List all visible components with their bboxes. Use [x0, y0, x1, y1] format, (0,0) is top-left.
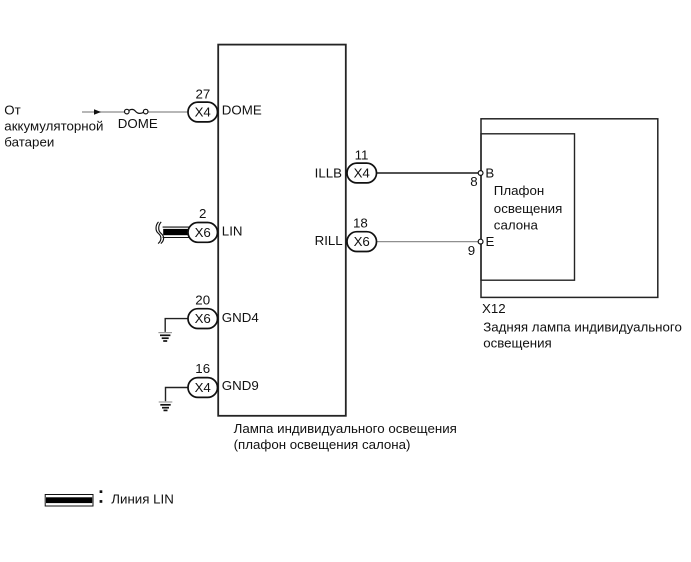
legend LIN line sample: [45, 495, 93, 507]
connector X4 pin 16 GND9: [188, 361, 259, 398]
lamp inner box: [481, 134, 575, 280]
connector X6 pin 18 RILL: [315, 215, 377, 251]
svg-text:GND4: GND4: [222, 310, 259, 325]
node: battery feed label: [4, 102, 103, 149]
LIN shielded bar wavy break: [156, 222, 161, 244]
svg-text:DOME: DOME: [222, 102, 262, 117]
svg-text:X4: X4: [195, 380, 211, 395]
wire fuse to DOME pin: [148, 111, 190, 113]
svg-text:8: 8: [470, 174, 477, 189]
wire RILL to node E: [376, 241, 480, 243]
svg-text:ILLB: ILLB: [315, 165, 342, 180]
svg-text:X4: X4: [195, 104, 211, 119]
svg-text:E: E: [486, 234, 495, 249]
svg-text:От: От: [4, 102, 20, 117]
svg-text:27: 27: [196, 86, 211, 101]
svg-text:DOME: DOME: [118, 116, 158, 131]
label: Плафон освещения салона: [494, 183, 563, 232]
module box: Лампа индивидуального освещения: [218, 45, 346, 416]
wire GND4 to ground: [165, 319, 189, 332]
svg-text:16: 16: [195, 361, 210, 376]
connector X6 pin 2 LIN: [188, 206, 243, 242]
ground GND4: [158, 333, 172, 341]
node B pin 8: [470, 166, 494, 190]
fuse DOME: [118, 109, 158, 131]
wire battery feed: [82, 111, 125, 113]
connector X4 pin 11 ILLB: [315, 147, 377, 183]
svg-text:18: 18: [353, 215, 368, 230]
legend colon: [100, 490, 103, 503]
svg-text:аккумуляторной: аккумуляторной: [4, 118, 103, 133]
svg-text:(плафон освещения салона): (плафон освещения салона): [234, 437, 411, 452]
label: Лампа индивидуального освещения (плафон освещения салона): [234, 421, 457, 452]
svg-text:20: 20: [195, 293, 210, 308]
svg-text:2: 2: [199, 206, 206, 221]
svg-text:LIN: LIN: [222, 224, 243, 239]
LIN bus bar: [163, 227, 192, 237]
wire ILLB to node B: [376, 172, 480, 174]
wire GND9 to ground: [166, 388, 190, 402]
svg-text:освещения: освещения: [494, 201, 563, 216]
svg-text:X6: X6: [354, 234, 370, 249]
svg-text:B: B: [485, 166, 494, 181]
svg-text:GND9: GND9: [222, 378, 259, 393]
svg-text:X6: X6: [195, 311, 211, 326]
connector X6 pin 20 GND4: [188, 293, 259, 329]
ground GND9: [159, 402, 173, 410]
svg-text:X6: X6: [195, 225, 211, 240]
svg-text:X4: X4: [354, 166, 370, 181]
svg-text:Линия LIN: Линия LIN: [111, 492, 174, 507]
node E pin 9: [468, 234, 495, 258]
connector X4 pin 27 DOME: [188, 86, 262, 122]
svg-text:X12: X12: [482, 301, 506, 316]
label: Задняя лампа индивидуального освещения: [483, 319, 682, 350]
svg-text:Задняя лампа индивидуального: Задняя лампа индивидуального: [483, 319, 682, 334]
svg-text:RILL: RILL: [315, 233, 343, 248]
svg-text:9: 9: [468, 243, 475, 258]
arrow on feed wire: [94, 109, 101, 115]
svg-text:11: 11: [355, 147, 369, 162]
svg-text:освещения: освещения: [483, 336, 552, 351]
svg-text:Лампа индивидуального освещени: Лампа индивидуального освещения: [234, 421, 457, 436]
lamp outer box X12: [481, 119, 658, 298]
svg-text:салона: салона: [494, 217, 539, 232]
svg-text:батареи: батареи: [4, 134, 54, 149]
svg-text:Плафон: Плафон: [494, 183, 544, 198]
